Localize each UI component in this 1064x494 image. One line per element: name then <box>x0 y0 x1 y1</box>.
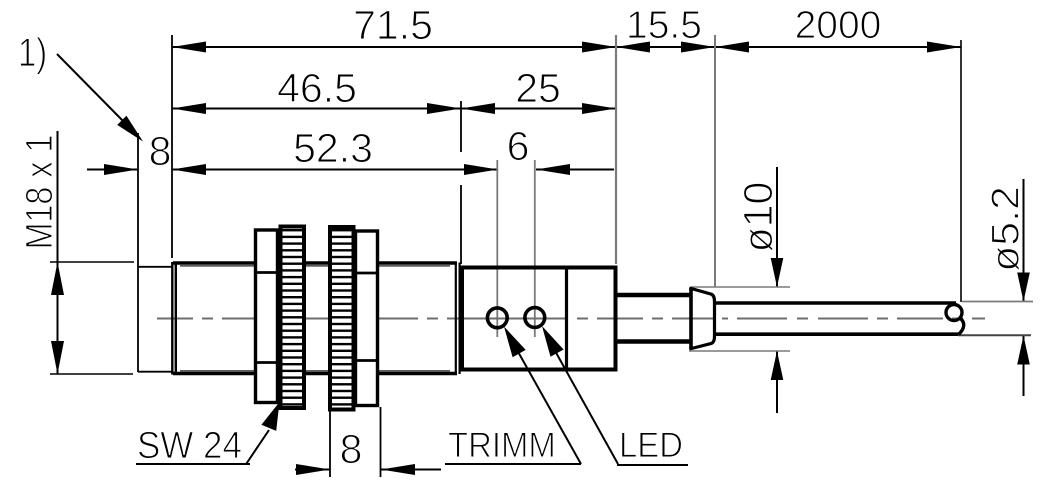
dimension line tail left of 8 <box>87 169 138 171</box>
sensing zone box (8mm, front of face) <box>137 133 139 372</box>
dimension line M18x1 (vertical) <box>57 131 59 374</box>
extension line x=616 (housing rear) <box>615 35 617 264</box>
dimension line phi10 lower <box>776 351 778 413</box>
svg-text:M18 x 1: M18 x 1 <box>19 135 61 250</box>
strain relief cone <box>689 288 693 350</box>
extension line y=335.3 for phi5.2 <box>958 334 1031 336</box>
arrow down tip M18 (y=374) <box>51 341 64 374</box>
svg-text:LED: LED <box>619 426 683 465</box>
leader line SW 24 <box>247 430 270 464</box>
centerline (dash-dot) <box>157 318 985 320</box>
leader arrow SW 24 <box>261 402 279 431</box>
dimension line phi5.2 upper (also text underline) <box>1023 179 1025 302</box>
dimension line 52.3 <box>172 169 498 171</box>
LED indicator circle <box>525 308 545 328</box>
cable gland neck <box>616 293 692 298</box>
thread end double line <box>455 263 457 375</box>
extension line x=330 (nut2 left) <box>329 411 331 477</box>
arrow right tip of 25 <box>582 103 616 114</box>
arrow right tip bottom-8 (x=330) <box>296 464 330 475</box>
extension line x=380 (nut2 right) <box>380 407 382 477</box>
leader line TRIMM <box>512 341 581 464</box>
svg-text:8: 8 <box>340 426 363 472</box>
dimension line phi10 upper (also text underline) <box>776 167 778 287</box>
underline TRIMM <box>445 463 581 465</box>
barrel outline (threaded body M18) <box>173 261 457 265</box>
arrow right tip of 52.3 / outside-left of 6 <box>464 164 498 175</box>
extension line x=172 (front face) <box>171 35 173 258</box>
thread root thin lines <box>180 265 450 267</box>
leader line LED <box>549 340 618 464</box>
arrow left tip bottom-8 (x=381) <box>381 464 415 475</box>
underline LED <box>617 464 688 466</box>
arrow outside-right of 6 (tip x=536) <box>536 164 570 175</box>
dimension line tails of bottom 8 <box>295 469 330 471</box>
svg-text:1): 1) <box>18 30 47 75</box>
arrow up tip M18 (y=262) <box>51 262 64 295</box>
dimension line tail right of 6 <box>536 169 614 171</box>
svg-text:15.5: 15.5 <box>626 4 702 47</box>
cable end break symbol <box>946 305 962 321</box>
TRIMM potentiometer circle <box>487 308 507 328</box>
svg-text:ø10: ø10 <box>735 182 781 253</box>
dimension line phi5.2 lower <box>1023 336 1025 397</box>
svg-text:2000: 2000 <box>795 4 882 47</box>
svg-text:25: 25 <box>515 65 561 111</box>
underline SW 24 <box>136 463 250 465</box>
bowtie arrows at x=461 <box>427 103 461 114</box>
lock nut 1 hex flat rectangle <box>256 230 278 403</box>
extension line x=715 (cable start) <box>714 35 716 287</box>
arrow up tip phi10 (y=351) <box>771 351 784 380</box>
svg-text:46.5: 46.5 <box>277 65 357 111</box>
svg-text:71.5: 71.5 <box>353 2 433 48</box>
svg-text:8: 8 <box>149 128 172 174</box>
leader arrow LED <box>542 326 564 357</box>
arrow left tip of 71.5 <box>172 42 206 53</box>
extension line x=536 (LED center) <box>534 160 536 337</box>
dimension line row2 (46.5 / 25) <box>172 108 616 110</box>
leader arrow of note 1) <box>117 116 143 142</box>
housing divider line <box>565 268 568 370</box>
arrow left tip of 52.3 <box>172 164 206 175</box>
extension line y=351 for phi10 <box>689 350 790 352</box>
lock nut 1 hex edge lines <box>256 271 278 274</box>
arrow left tip of 46.5 <box>172 103 206 114</box>
extension line x=461 (upper part) <box>460 101 462 152</box>
arrow right tip of 8 (at x=138) <box>104 164 138 175</box>
lock nut 2 hex edge lines <box>356 272 378 275</box>
arrow down tip phi5.2 (y=301.5) <box>1017 273 1030 302</box>
extension line y=287 for phi10 <box>691 286 790 288</box>
svg-text:ø5.2: ø5.2 <box>983 186 1027 272</box>
extension line x=961 (cable end) <box>960 40 962 302</box>
svg-text:6: 6 <box>507 123 530 169</box>
lock nut 2 knurled band <box>330 227 354 410</box>
dimension line row1 (71.5 / 15.5 / 2000) <box>172 46 961 48</box>
front face double line <box>171 262 173 375</box>
arrow up tip phi5.2 (y=335.5) <box>1017 336 1030 365</box>
extension line x=461 (lower part) <box>460 185 462 264</box>
extension tick y=374 <box>50 373 133 375</box>
leader line of note 1) <box>57 54 125 123</box>
extension line y=301.5 for phi5.2 <box>962 301 1033 303</box>
svg-text:SW 24: SW 24 <box>137 424 242 467</box>
extension line x=498 (TRIMM center) <box>496 160 498 337</box>
leader arrow TRIMM <box>504 327 526 358</box>
arrow down tip phi10 (y=287) <box>771 258 784 287</box>
bowtie arrows at x=616 <box>582 42 616 53</box>
svg-text:TRIMM: TRIMM <box>448 426 556 465</box>
svg-text:52.3: 52.3 <box>293 125 373 171</box>
arrow right tip of 2000 <box>927 42 961 53</box>
extension tick y=262 <box>50 261 134 263</box>
cable outline <box>713 301 956 305</box>
housing rectangle <box>462 268 616 370</box>
lock nut 2 hex flat rectangle <box>356 231 378 406</box>
bowtie arrows at x=715 <box>681 42 715 53</box>
lock nut 1 knurled band <box>281 227 305 409</box>
